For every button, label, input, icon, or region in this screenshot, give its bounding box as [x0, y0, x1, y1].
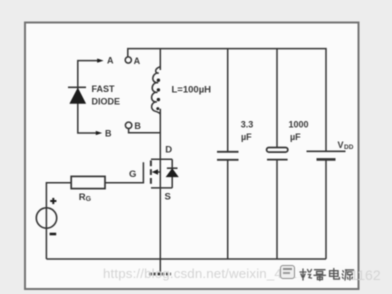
source VG circle: [36, 208, 56, 228]
mosfet Q1 body arrow: [152, 169, 161, 174]
wire battery branch bottom: [325, 160, 327, 259]
ground symbol: [149, 273, 171, 276]
wire fast-diode branch: [78, 61, 99, 133]
diode D1 fast diode: [68, 87, 86, 103]
arrow to node A: [97, 59, 103, 63]
inductor L1 coil: [152, 67, 161, 115]
arrow to node B: [96, 131, 102, 135]
wire source down to ground: [159, 188, 161, 273]
mosfet Q1 drain stub: [151, 158, 172, 160]
wire inductor branch top: [159, 49, 161, 70]
inductor L1 coil knots: [156, 79, 160, 111]
battery VDD plates: [307, 151, 346, 159]
watermark author name glyphs (song ge dian yuan): [300, 269, 354, 281]
watermark logo icon: [280, 265, 295, 279]
wire capacitor C2 branch: [276, 49, 278, 148]
wire drain vertical: [159, 159, 161, 188]
mosfet Q1 body diode: [167, 159, 178, 188]
wire inductor to drain: [159, 109, 161, 160]
node A terminal circle: [125, 57, 131, 63]
wire gate lead: [105, 162, 143, 183]
plus sign of source: [50, 198, 57, 234]
watermark tail digits: [351, 267, 381, 283]
node B terminal circle: [125, 122, 131, 128]
mosfet Q1 channel bars: [150, 160, 152, 183]
wire capacitor C1 branch: [227, 49, 229, 151]
watermark url text: [103, 266, 304, 281]
wire top bus: [128, 49, 326, 151]
minus sign of source: [50, 233, 57, 236]
mosfet Q1 source stub: [151, 187, 172, 189]
wire node B stub: [129, 129, 161, 133]
wire source-circle branch: [46, 183, 71, 259]
watermark author name halo: [297, 266, 356, 283]
capacitor C2 plates 1000uF electrolytic: [267, 148, 288, 160]
wire bottom bus: [46, 258, 326, 260]
capacitor C1 plates 3.3uF: [217, 152, 239, 160]
resistor RG body: [71, 176, 105, 188]
